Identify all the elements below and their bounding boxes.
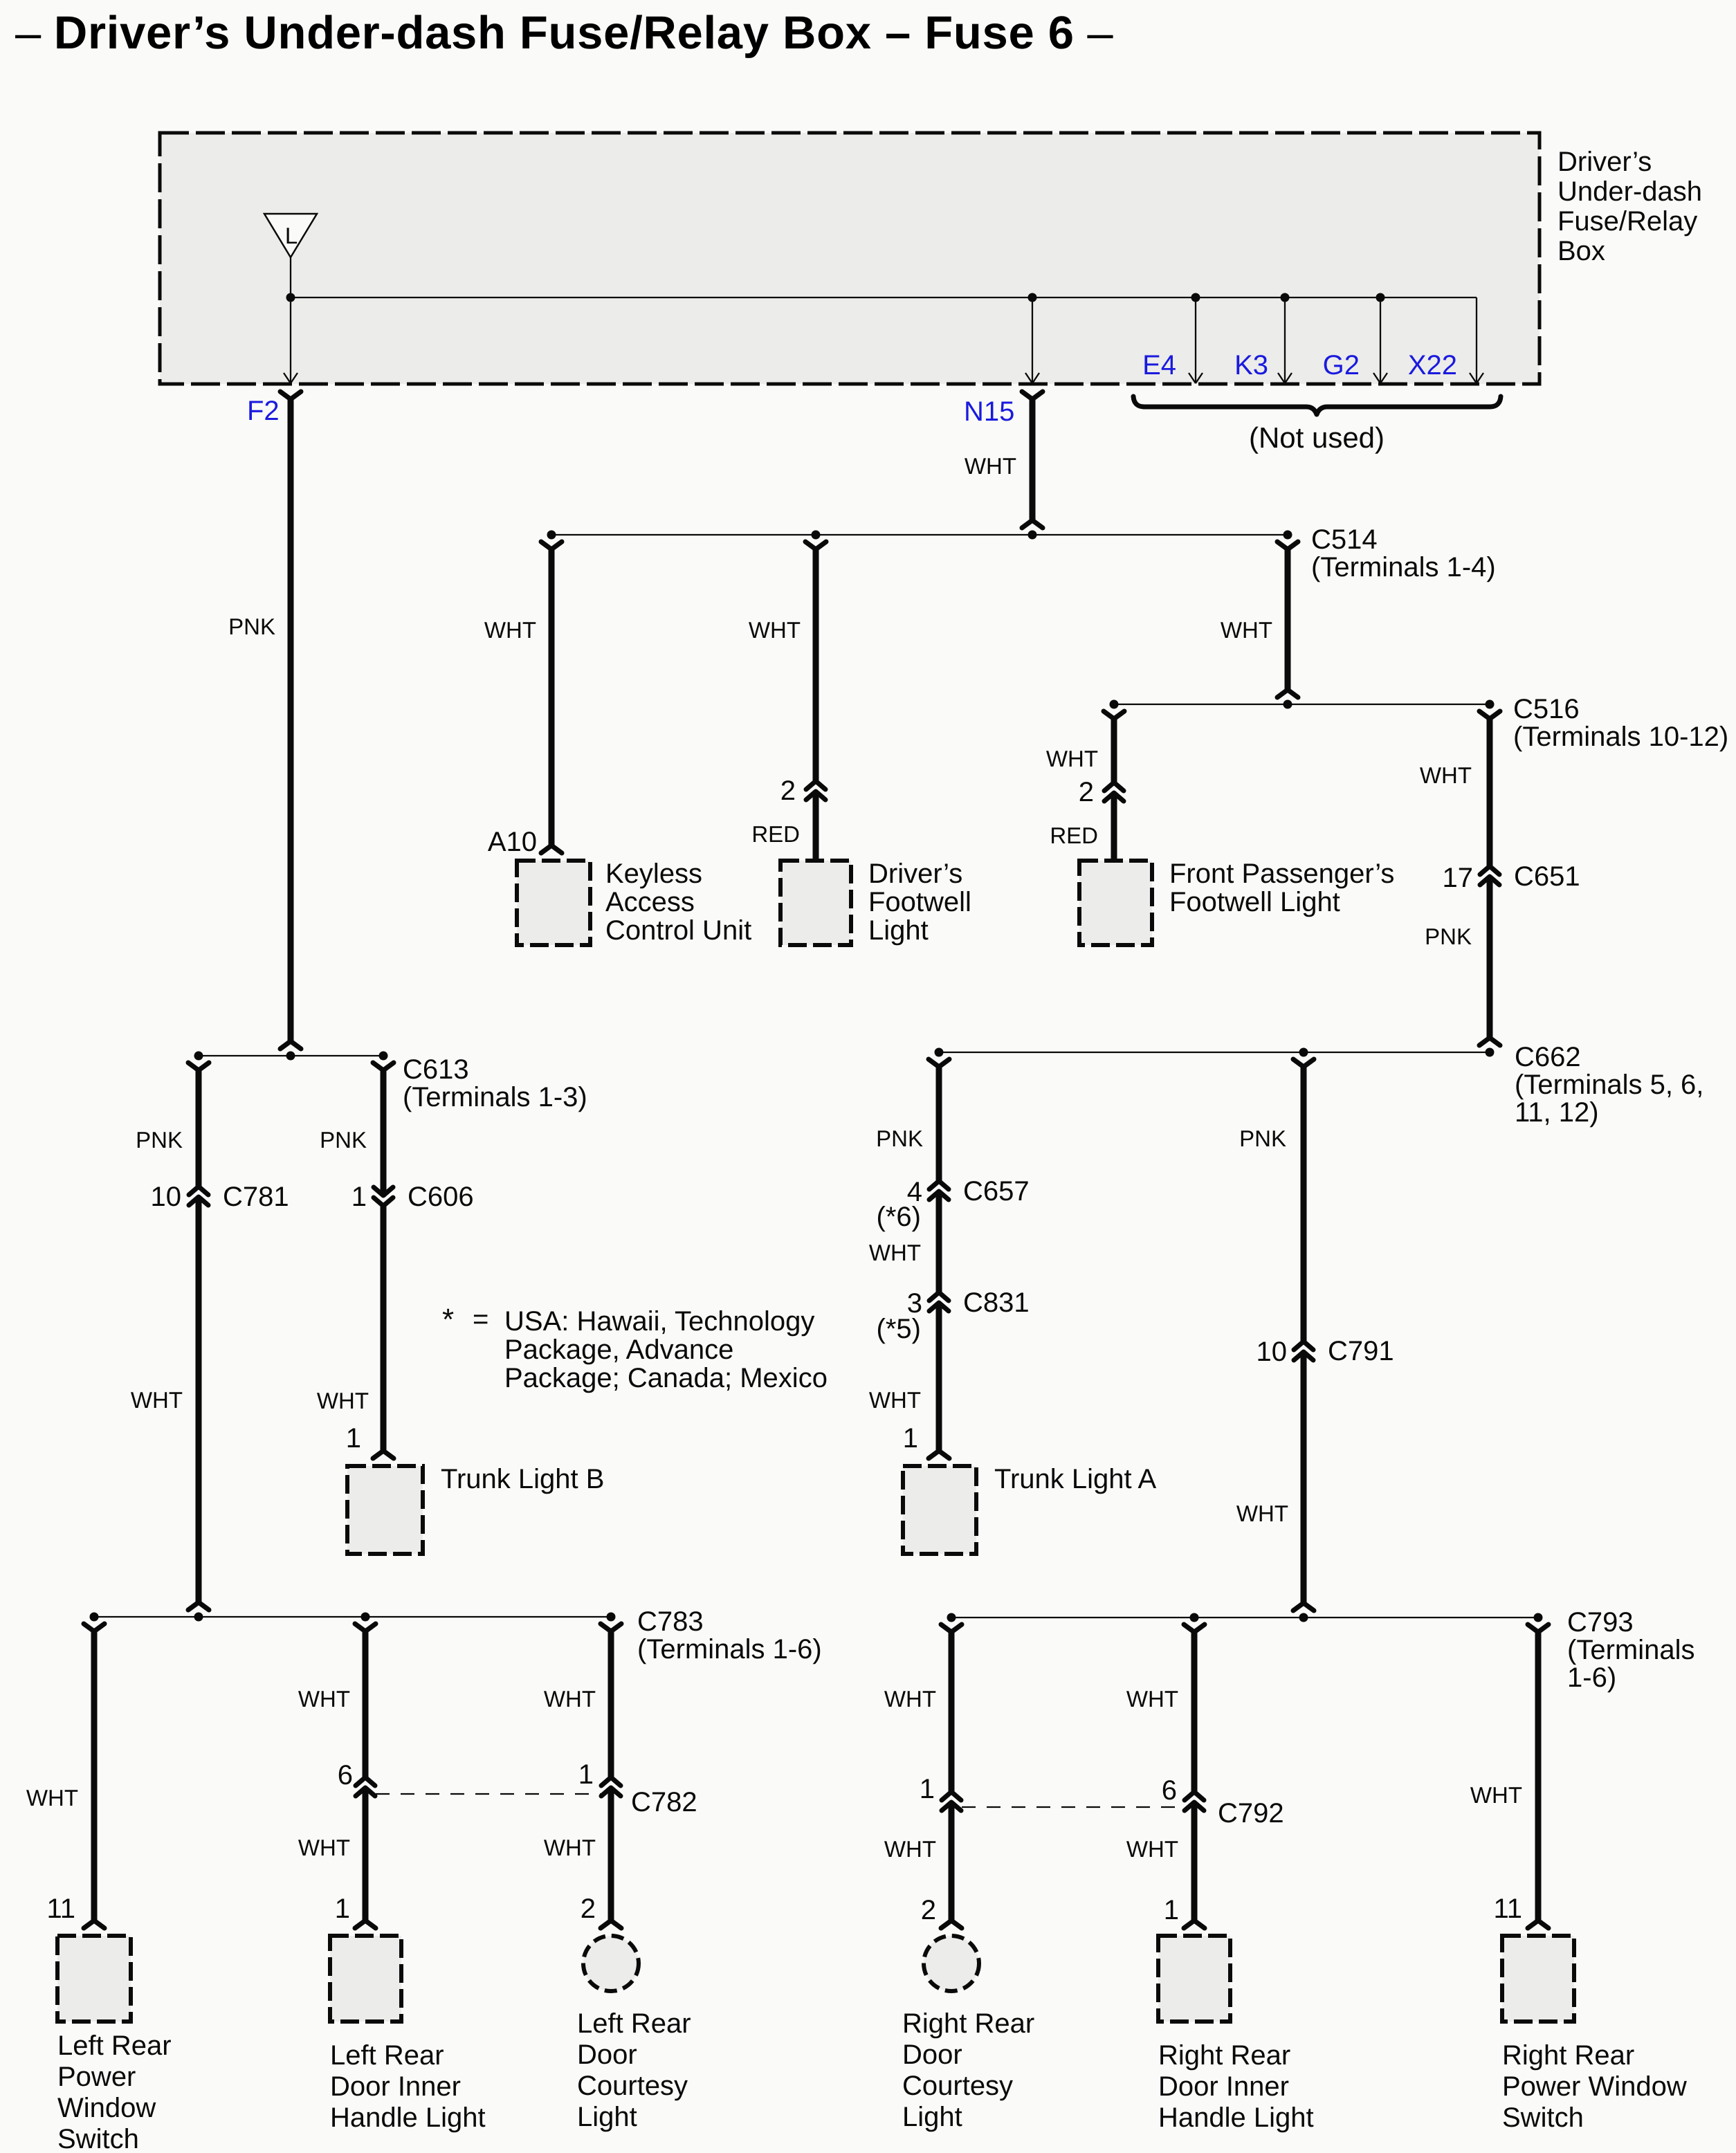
junction dot mid C783	[361, 1613, 370, 1622]
svg-text:*: *	[442, 1303, 454, 1337]
svg-text:6: 6	[1162, 1775, 1177, 1806]
svg-text:(*6): (*6)	[877, 1202, 921, 1232]
svg-text:C606: C606	[408, 1182, 474, 1212]
wire (WHT/RED) to Driver's Footwell Light	[805, 542, 826, 549]
svg-text:2: 2	[921, 1895, 936, 1925]
wire (WHT) through C782 to Left Rear Door Courtesy Light	[601, 1624, 621, 1631]
svg-text:C831: C831	[963, 1288, 1030, 1318]
net C662 (Terminals 5 6 11 12) horizontal wire	[939, 1052, 1490, 1053]
junction dot left end C613	[194, 1052, 203, 1061]
svg-text:A10: A10	[488, 827, 537, 857]
svg-text:11: 11	[46, 1894, 75, 1924]
svg-text:(*5): (*5)	[877, 1314, 921, 1344]
component: Keyless Access Control Unit	[517, 861, 590, 945]
svg-text:RED: RED	[751, 821, 800, 847]
svg-text:PNK: PNK	[228, 614, 275, 639]
junction dot left end C516	[1110, 700, 1119, 709]
svg-text:F2: F2	[247, 396, 280, 426]
svg-text:Handle Light: Handle Light	[1158, 2102, 1314, 2133]
junction dot mid C793	[1190, 1613, 1199, 1622]
net C613 (Terminals 1-3) horizontal wire	[199, 1055, 383, 1056]
svg-text:11, 12): 11, 12)	[1515, 1097, 1599, 1128]
component: Left Rear Door Courtesy Light	[583, 1936, 639, 1991]
svg-text:PNK: PNK	[876, 1126, 923, 1151]
svg-text:K3: K3	[1234, 350, 1268, 381]
svg-text:Handle Light: Handle Light	[330, 2102, 486, 2133]
svg-text:WHT: WHT	[317, 1388, 369, 1413]
brace: E4 K3 G2 X22 not used	[1133, 396, 1501, 414]
svg-text:Driver’s: Driver’s	[868, 859, 962, 889]
junction dot N15/C514	[1028, 531, 1037, 540]
svg-text:Fuse/Relay: Fuse/Relay	[1557, 206, 1697, 237]
svg-text:Switch: Switch	[1502, 2102, 1584, 2133]
svg-text:Courtesy: Courtesy	[902, 2071, 1013, 2101]
svg-text:Right Rear: Right Rear	[1158, 2040, 1290, 2071]
svg-text:WHT: WHT	[869, 1387, 921, 1413]
net C514 (Terminals 1-4) horizontal wire	[551, 534, 1288, 535]
svg-text:X22: X22	[1408, 350, 1457, 381]
svg-text:C791: C791	[1328, 1336, 1394, 1366]
svg-text:Right Rear: Right Rear	[1502, 2040, 1634, 2071]
component: Front Passenger's Footwell Light	[1079, 861, 1152, 945]
wire (WHT) through C792 to Right Rear Door Inner Handle Light	[1184, 1624, 1205, 1632]
svg-text:Power Window: Power Window	[1502, 2071, 1687, 2102]
wire (WHT) to Right Rear Power Window Switch pin 11	[1528, 1624, 1548, 1632]
svg-text:Left Rear: Left Rear	[330, 2040, 444, 2071]
svg-text:Access: Access	[605, 887, 695, 917]
svg-text:Door Inner: Door Inner	[330, 2071, 461, 2102]
svg-text:Under-dash: Under-dash	[1557, 176, 1702, 207]
svg-text:WHT: WHT	[484, 617, 536, 643]
svg-text:C662: C662	[1515, 1042, 1581, 1072]
junction dot right end C613	[379, 1052, 388, 1061]
svg-text:Light: Light	[577, 2102, 637, 2132]
wire F2 (PNK) from fuse box to C613 node	[280, 392, 301, 399]
wire: fuse output bus inside box	[290, 257, 291, 297]
wire (PNK/WHT) to Trunk Light A through C657 and C831	[929, 1059, 949, 1067]
svg-text:1: 1	[346, 1423, 361, 1454]
junction at bus/E4	[1191, 293, 1200, 302]
svg-text:1: 1	[1164, 1895, 1179, 1925]
svg-text:WHT: WHT	[1236, 1501, 1288, 1526]
svg-text:PNK: PNK	[136, 1127, 183, 1153]
junction at bus/G2	[1376, 293, 1385, 302]
svg-text:(Terminals 1-4): (Terminals 1-4)	[1311, 552, 1496, 583]
junction at bus/N15	[1028, 293, 1037, 302]
svg-text:Driver’s: Driver’s	[1557, 147, 1652, 177]
svg-text:C651: C651	[1514, 861, 1580, 892]
svg-text:Switch: Switch	[57, 2124, 139, 2153]
svg-text:RED: RED	[1050, 823, 1098, 848]
svg-text:WHT: WHT	[749, 617, 801, 643]
svg-text:WHT: WHT	[884, 1686, 936, 1712]
wire: drop to E4 with arrow	[1195, 297, 1196, 383]
svg-text:WHT: WHT	[298, 1835, 350, 1860]
svg-text:=: =	[473, 1304, 488, 1335]
svg-text:Trunk Light B: Trunk Light B	[441, 1464, 604, 1494]
svg-text:Door: Door	[902, 2040, 962, 2070]
junction dot right end C516	[1486, 700, 1495, 709]
svg-text:WHT: WHT	[1470, 1782, 1522, 1808]
svg-text:WHT: WHT	[1221, 617, 1272, 643]
component: Right Rear Door Courtesy Light	[924, 1936, 979, 1991]
wire (WHT) through C792 to Right Rear Door Courtesy Light	[941, 1624, 962, 1632]
wire (WHT/PNK) through connector C651 to C662 node	[1479, 711, 1500, 719]
svg-text:(Terminals 1-6): (Terminals 1-6)	[637, 1634, 822, 1665]
svg-text:10: 10	[151, 1182, 182, 1212]
svg-text:6: 6	[338, 1760, 353, 1790]
svg-text:Door: Door	[577, 2040, 637, 2070]
component: Right Rear Power Window Switch	[1502, 1936, 1574, 2022]
wire: drop to F2 with arrow	[290, 297, 291, 383]
svg-text:E4: E4	[1142, 350, 1176, 381]
junction at bus/F2	[286, 293, 295, 302]
wire N15 (WHT) from fuse box to C514 node	[1022, 392, 1043, 399]
wire: drop to K3 with arrow	[1284, 297, 1286, 383]
svg-text:Light: Light	[902, 2102, 962, 2132]
svg-text:Courtesy: Courtesy	[577, 2071, 688, 2101]
svg-text:C613: C613	[403, 1054, 469, 1085]
junction dot left end C783	[90, 1613, 99, 1622]
svg-text:WHT: WHT	[544, 1835, 596, 1860]
junction at bus/K3	[1281, 293, 1290, 302]
wire (WHT) through C782 to Left Rear Door Inner Handle Light	[355, 1624, 376, 1631]
svg-text:G2: G2	[1323, 350, 1360, 381]
svg-text:N15: N15	[964, 396, 1014, 427]
junction dot mid C516	[1283, 700, 1292, 709]
svg-text:(Terminals 1-3): (Terminals 1-3)	[403, 1082, 587, 1112]
svg-text:Left Rear: Left Rear	[57, 2031, 172, 2061]
wire: drop to G2 with arrow	[1380, 297, 1381, 383]
wire: drop to N15 with arrow	[1032, 297, 1033, 383]
svg-text:PNK: PNK	[1425, 924, 1472, 949]
svg-text:Light: Light	[868, 915, 929, 946]
svg-text:C792: C792	[1218, 1798, 1284, 1829]
svg-text:2: 2	[1079, 777, 1094, 807]
svg-text:11: 11	[1493, 1894, 1522, 1924]
component: Trunk Light A	[903, 1466, 976, 1554]
svg-text:(Terminals 5, 6,: (Terminals 5, 6,	[1515, 1070, 1703, 1100]
svg-text:Door Inner: Door Inner	[1158, 2071, 1289, 2102]
svg-text:Trunk Light A: Trunk Light A	[994, 1464, 1157, 1494]
wire (PNK/WHT) through connector C791 to C793 node	[1293, 1059, 1314, 1067]
component: Left Rear Power Window Switch	[57, 1936, 131, 2022]
net C793 (Terminals 1-6) horizontal wire	[951, 1617, 1538, 1618]
dashed link at connector C792	[962, 1806, 1184, 1808]
svg-text:WHT: WHT	[131, 1387, 183, 1413]
junction dot F2/C613	[286, 1052, 295, 1061]
net C783 (Terminals 1-6) horizontal wire	[94, 1616, 611, 1618]
component: Left Rear Door Inner Handle Light	[330, 1936, 401, 2022]
svg-text:(Not used): (Not used)	[1249, 421, 1385, 454]
svg-text:2: 2	[581, 1894, 596, 1924]
svg-text:(Terminals: (Terminals	[1567, 1635, 1694, 1665]
svg-text:WHT: WHT	[1420, 762, 1472, 788]
svg-text:Footwell Light: Footwell Light	[1169, 887, 1340, 917]
svg-text:WHT: WHT	[869, 1240, 921, 1265]
svg-text:WHT: WHT	[544, 1686, 596, 1712]
svg-text:Control Unit: Control Unit	[605, 915, 751, 946]
component: Driver's Footwell Light	[780, 861, 851, 945]
net C516 (Terminals 10-12) horizontal wire	[1114, 704, 1490, 705]
svg-text:WHT: WHT	[1046, 746, 1098, 771]
svg-text:C783: C783	[637, 1606, 704, 1637]
svg-text:C516: C516	[1513, 694, 1580, 724]
svg-text:Right Rear: Right Rear	[902, 2008, 1034, 2039]
wire: drop to X22 with arrow	[1476, 297, 1477, 383]
svg-text:Window: Window	[57, 2093, 156, 2123]
svg-text:1-6): 1-6)	[1567, 1662, 1616, 1693]
svg-text:C782: C782	[631, 1787, 697, 1817]
wire (WHT) from C514 to C516 node	[1277, 542, 1298, 549]
fuse box: Driver's Under-dash Fuse/Relay Box (dashed enclosure)	[160, 133, 1539, 384]
svg-text:Front Passenger’s: Front Passenger’s	[1169, 859, 1394, 889]
junction dot right end C783	[607, 1613, 616, 1622]
component: Trunk Light B	[347, 1466, 423, 1554]
svg-text:C781: C781	[223, 1182, 289, 1212]
svg-text:WHT: WHT	[965, 453, 1016, 479]
svg-text:C793: C793	[1567, 1607, 1634, 1638]
svg-text:(Terminals 10-12): (Terminals 10-12)	[1513, 722, 1728, 752]
svg-text:Package; Canada; Mexico: Package; Canada; Mexico	[504, 1363, 828, 1393]
svg-text:C657: C657	[963, 1176, 1030, 1207]
svg-text:1: 1	[903, 1423, 918, 1454]
svg-text:WHT: WHT	[1126, 1836, 1178, 1862]
fuse 6 symbol: triangle L	[264, 214, 317, 257]
svg-text:USA: Hawaii, Technology: USA: Hawaii, Technology	[504, 1306, 814, 1337]
wire (PNK/WHT) through connector C781 to C783 node	[188, 1063, 209, 1070]
svg-text:Keyless: Keyless	[605, 859, 702, 889]
svg-text:Box: Box	[1557, 236, 1605, 266]
svg-text:Power: Power	[57, 2062, 136, 2092]
svg-text:17: 17	[1443, 863, 1474, 893]
junction dot right end C793	[1534, 1613, 1543, 1622]
svg-text:PNK: PNK	[1239, 1126, 1286, 1151]
svg-text:C514: C514	[1311, 524, 1378, 555]
svg-text:WHT: WHT	[298, 1686, 350, 1712]
junction dot C791/C793	[1299, 1613, 1308, 1622]
junction dot left end C662	[935, 1048, 944, 1057]
svg-text:WHT: WHT	[1126, 1686, 1178, 1712]
junction dot mid C662	[1299, 1048, 1308, 1057]
svg-text:WHT: WHT	[26, 1785, 78, 1811]
svg-text:Left Rear: Left Rear	[577, 2008, 691, 2039]
svg-text:2: 2	[780, 776, 796, 806]
svg-text:Footwell: Footwell	[868, 887, 971, 917]
junction dot right end C514	[1283, 531, 1292, 540]
junction dot right end C662	[1486, 1048, 1495, 1057]
svg-text:L: L	[285, 223, 298, 248]
svg-text:1: 1	[920, 1774, 935, 1804]
svg-text:1: 1	[351, 1182, 367, 1212]
wire (WHT) to Keyless Access Control Unit pin A10	[541, 542, 562, 549]
component: Right Rear Door Inner Handle Light	[1158, 1936, 1230, 2022]
wire (WHT/RED) to Front Passenger's Footwell Light	[1104, 711, 1124, 719]
wire (WHT) to Left Rear Power Window Switch pin 11	[84, 1624, 104, 1631]
svg-text:1: 1	[335, 1894, 350, 1924]
svg-text:10: 10	[1257, 1337, 1288, 1367]
junction dot C781/C783	[194, 1613, 203, 1622]
svg-text:1: 1	[578, 1759, 594, 1790]
wire (PNK/WHT) through connector C606 to Trunk Light B	[373, 1063, 394, 1070]
dashed link at connector C782	[376, 1793, 601, 1795]
junction dot mid C514	[812, 531, 821, 540]
svg-text:– Driver’s Under-dash Fuse/Rel: – Driver’s Under-dash Fuse/Relay Box – F…	[15, 7, 1113, 59]
junction dot left end C793	[947, 1613, 956, 1622]
svg-text:Package, Advance: Package, Advance	[504, 1335, 733, 1365]
svg-text:WHT: WHT	[884, 1836, 936, 1862]
junction dot left end C514	[547, 531, 556, 540]
svg-text:PNK: PNK	[320, 1127, 367, 1153]
